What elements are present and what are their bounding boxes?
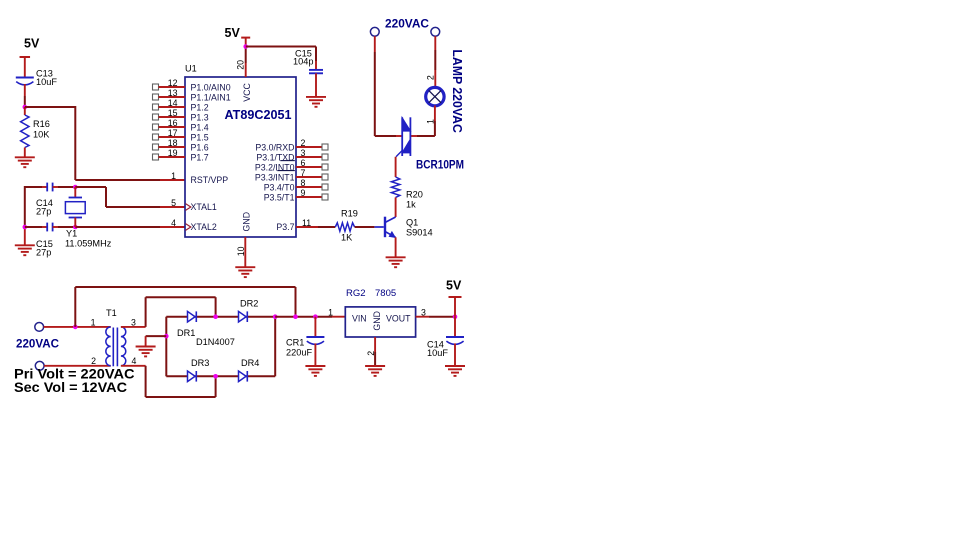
svg-text:16: 16 [168,118,178,128]
svg-text:10: 10 [236,246,246,256]
svg-text:R19: R19 [341,209,358,219]
svg-text:8: 8 [301,178,306,188]
svg-text:18: 18 [168,138,178,148]
svg-text:7805: 7805 [375,288,396,299]
svg-text:15: 15 [168,108,178,118]
svg-text:104p: 104p [293,57,313,67]
svg-text:P1.2: P1.2 [191,102,209,112]
svg-text:1: 1 [171,171,176,181]
svg-text:19: 19 [168,148,178,158]
svg-text:DR4: DR4 [241,358,259,368]
svg-text:XTAL1: XTAL1 [191,202,217,212]
svg-text:1K: 1K [341,233,353,243]
svg-text:P3.5/T1: P3.5/T1 [264,192,295,202]
svg-text:P1.5: P1.5 [191,132,209,142]
svg-text:5V: 5V [446,279,462,293]
svg-text:10K: 10K [33,130,50,140]
svg-text:LAMP 220VAC: LAMP 220VAC [450,49,464,133]
svg-text:P1.1/AIN1: P1.1/AIN1 [191,92,231,102]
svg-text:17: 17 [168,128,178,138]
svg-text:XTAL2: XTAL2 [191,222,217,232]
svg-text:14: 14 [168,98,178,108]
svg-text:D1N4007: D1N4007 [196,337,235,347]
svg-text:P1.4: P1.4 [191,122,209,132]
svg-text:P3.3/INT1: P3.3/INT1 [255,172,295,182]
svg-text:P3.7: P3.7 [276,222,294,232]
svg-text:5V: 5V [225,26,241,40]
svg-text:9: 9 [301,188,306,198]
svg-text:1: 1 [328,308,333,318]
svg-text:27p: 27p [36,207,51,217]
svg-text:3: 3 [301,148,306,158]
svg-text:R16: R16 [33,119,50,129]
svg-text:2: 2 [301,138,306,148]
svg-text:2: 2 [366,351,376,356]
svg-text:2: 2 [91,356,96,366]
svg-text:P1.0/AIN0: P1.0/AIN0 [191,82,231,92]
svg-text:RG2: RG2 [346,288,366,299]
svg-text:U1: U1 [185,64,197,74]
svg-text:10uF: 10uF [427,348,448,358]
svg-text:4: 4 [132,356,137,366]
svg-text:DR1: DR1 [177,328,195,338]
svg-text:1: 1 [425,119,435,124]
svg-text:Sec Vol = 12VAC: Sec Vol = 12VAC [14,380,127,396]
svg-text:VCC: VCC [242,83,252,102]
svg-text:VOUT: VOUT [386,314,411,324]
svg-text:2: 2 [426,75,436,80]
svg-text:S9014: S9014 [406,228,433,238]
svg-text:220uF: 220uF [286,348,312,358]
svg-text:11.059MHz: 11.059MHz [65,239,112,249]
svg-text:GND: GND [372,311,382,331]
svg-text:RST/VPP: RST/VPP [191,175,229,185]
svg-text:27p: 27p [36,248,51,258]
svg-text:12: 12 [168,78,178,88]
svg-text:Y1: Y1 [66,229,77,239]
svg-text:Q1: Q1 [406,218,418,228]
svg-text:P1.6: P1.6 [191,142,209,152]
svg-text:13: 13 [168,88,178,98]
svg-text:1k: 1k [406,200,416,210]
svg-text:5: 5 [171,198,176,208]
svg-text:AT89C2051: AT89C2051 [225,107,292,122]
svg-text:10uF: 10uF [36,77,57,87]
svg-text:P3.0/RXD: P3.0/RXD [255,142,294,152]
svg-text:6: 6 [301,158,306,168]
svg-text:R20: R20 [406,190,423,200]
svg-text:5V: 5V [24,37,40,51]
svg-text:DR2: DR2 [240,298,258,308]
svg-text:P1.3: P1.3 [191,112,209,122]
svg-text:DR3: DR3 [191,358,209,368]
svg-text:P3.4/T0: P3.4/T0 [264,182,295,192]
svg-text:CR1: CR1 [286,338,304,348]
svg-text:T1: T1 [106,308,117,318]
svg-text:1: 1 [91,318,96,328]
svg-text:VIN: VIN [352,314,367,324]
svg-text:BCR10PM: BCR10PM [416,160,464,172]
svg-text:220VAC: 220VAC [16,339,59,351]
svg-text:4: 4 [171,218,176,228]
svg-text:220VAC: 220VAC [385,19,429,31]
svg-text:P1.7: P1.7 [191,152,209,162]
svg-text:7: 7 [301,168,306,178]
svg-text:GND: GND [241,212,251,232]
svg-text:20: 20 [235,60,245,70]
